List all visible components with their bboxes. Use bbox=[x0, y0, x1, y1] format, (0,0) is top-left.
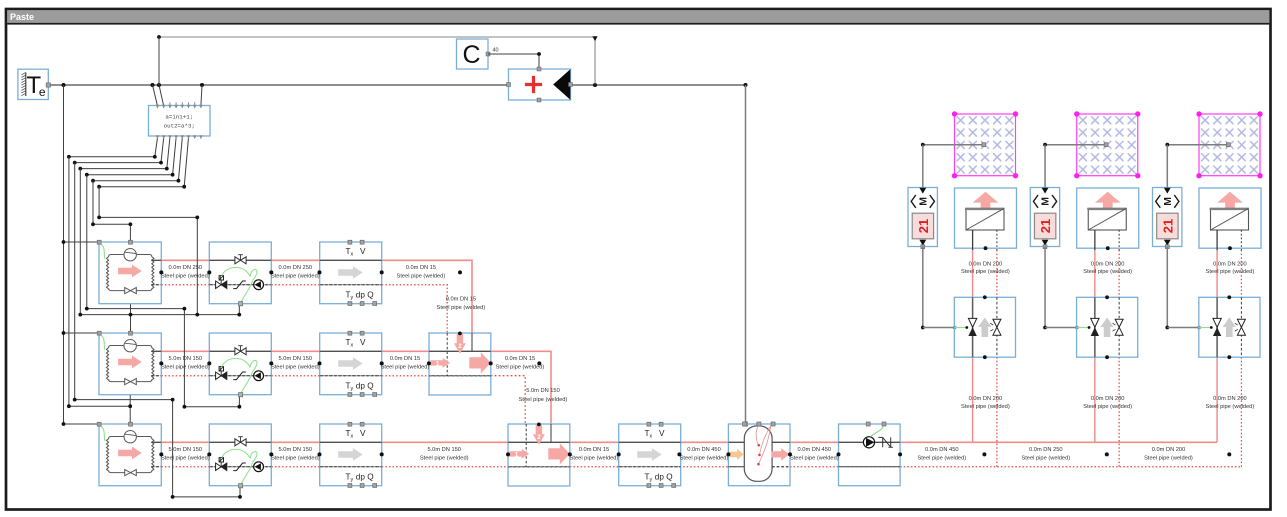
pipe P3.6 return (red dotted) bbox=[790, 466, 839, 468]
svg-text:5.0m DN 150: 5.0m DN 150 bbox=[427, 447, 461, 453]
pipe endpoint dots row1 bbox=[159, 270, 163, 274]
svg-text:5.0m DN 150: 5.0m DN 150 bbox=[279, 447, 313, 453]
feedback wire (top) bbox=[159, 37, 595, 85]
svg-text:a=in1+1;: a=in1+1; bbox=[165, 114, 193, 121]
bus column 6 (to row1 top pin) bbox=[92, 181, 94, 225]
svg-text:Steel pipe (welded): Steel pipe (welded) bbox=[570, 456, 619, 462]
heat pump block HP2 bbox=[97, 331, 161, 394]
stub to HP2 top-left bbox=[64, 332, 100, 334]
tee junction block T3 bbox=[508, 423, 570, 487]
pipe P3.1 return (red dotted) bbox=[161, 466, 209, 468]
svg-text:Steel pipe (welded): Steel pipe (welded) bbox=[161, 274, 210, 280]
wire: main wire to script pin8 bbox=[201, 85, 202, 106]
svg-text:Steel pipe (welded): Steel pipe (welded) bbox=[1021, 456, 1070, 462]
wire T2b: hp1-bottom to hp2-top chain bbox=[130, 304, 132, 333]
wire: script pin1 fan-out bbox=[69, 138, 158, 157]
svg-text:0.0m DN 250: 0.0m DN 250 bbox=[1029, 447, 1063, 453]
consumer branch 3 (hatched load, M-block 21, heat exchanger, valves) bbox=[1153, 111, 1263, 466]
svg-text:e: e bbox=[39, 85, 46, 99]
svg-text:5.0m DN 150: 5.0m DN 150 bbox=[526, 388, 560, 394]
bus column 5 (to row2 valve return) bbox=[86, 175, 88, 309]
svg-text:Steel pipe (welded): Steel pipe (welded) bbox=[271, 365, 320, 371]
pipe P2.1 supply (red) bbox=[161, 350, 209, 352]
main wire from Te sensor bbox=[48, 84, 508, 86]
svg-text:0.0m DN 250: 0.0m DN 250 bbox=[169, 265, 203, 271]
adder block (+) bbox=[507, 67, 573, 102]
pipe endpoint dots row2 bbox=[159, 361, 163, 365]
pipe P2.4 return (red dotted) tee2 to tee3 bbox=[491, 376, 526, 425]
svg-text:0.0m DN 450: 0.0m DN 450 bbox=[925, 447, 959, 453]
pipe P1.2 return (red dotted) bbox=[271, 284, 319, 286]
wire: script pin6 fan-out bbox=[99, 138, 188, 187]
wire T3a: row3 valve bottom feed bbox=[75, 400, 173, 497]
wire T2a: row2 valve-bottom feed bbox=[87, 309, 185, 407]
row3 return pipe base line bbox=[151, 466, 1242, 468]
svg-text:0.0m DN 15: 0.0m DN 15 bbox=[406, 265, 436, 271]
junction dots on main wire bbox=[62, 83, 66, 87]
svg-text:40: 40 bbox=[492, 48, 498, 54]
pipe P3.7 supply (red) long run to branches bbox=[900, 441, 1217, 443]
svg-text:Steel pipe (welded): Steel pipe (welded) bbox=[917, 456, 966, 462]
svg-text:0.0m DN 250: 0.0m DN 250 bbox=[279, 265, 313, 271]
svg-text:Steel pipe (welded): Steel pipe (welded) bbox=[437, 305, 486, 311]
ambient temperature sensor Te bbox=[18, 69, 51, 99]
svg-text:Steel pipe (welded): Steel pipe (welded) bbox=[1144, 456, 1193, 462]
valve/pump station V2 bbox=[209, 333, 271, 397]
arrowhead at feedback wire end bbox=[592, 36, 597, 41]
row3 supply pipe base line bbox=[151, 441, 1217, 443]
svg-text:Paste: Paste bbox=[10, 12, 34, 22]
wire T1b: row1 hp top pin link bbox=[93, 224, 130, 242]
row1 return pipe base line bbox=[151, 284, 448, 286]
pipe P3.3 return (red dotted) long bbox=[382, 466, 508, 468]
wire from main wire down to storage tank bbox=[745, 85, 747, 424]
pipe P2.4 supply (red) tee2 to tee3 bbox=[491, 351, 551, 424]
svg-text:5.0m DN 150: 5.0m DN 150 bbox=[169, 447, 203, 453]
pipe P3.2 return (red dotted) bbox=[271, 466, 319, 468]
pipe P1.2 supply (red) bbox=[271, 259, 319, 261]
pump block with grid symbol bbox=[839, 422, 901, 486]
svg-text:out2=a*3;: out2=a*3; bbox=[164, 123, 195, 130]
wire T3b: hp2-bottom to hp3-top chain bbox=[129, 395, 131, 424]
stub to HP1 top-left bbox=[64, 241, 100, 243]
storage tank block bbox=[728, 422, 790, 486]
svg-text:C: C bbox=[462, 41, 480, 69]
pipe P3.7 return (red dotted) run to right edge bbox=[900, 466, 1242, 468]
svg-text:0.0m DN 450: 0.0m DN 450 bbox=[687, 447, 721, 453]
pipe P3.2 supply (red) bbox=[271, 441, 319, 443]
svg-text:0.0m DN 15: 0.0m DN 15 bbox=[505, 356, 535, 362]
wire: script pin5 fan-out bbox=[93, 138, 182, 181]
pipe P3.1 supply (red) bbox=[161, 441, 209, 443]
heat pump block HP3 bbox=[97, 422, 161, 485]
pipe P3.4 supply (red) bbox=[570, 441, 619, 443]
svg-text:Steel pipe (welded): Steel pipe (welded) bbox=[420, 456, 469, 462]
wire: script pin3 fan-out bbox=[80, 138, 170, 169]
valve/pump station V3 bbox=[209, 424, 271, 488]
pipe P2.2 return (red dotted) bbox=[271, 375, 319, 377]
wire C to adder bbox=[488, 54, 539, 69]
valve/pump station V1 bbox=[209, 242, 271, 306]
svg-text:Steel pipe (welded): Steel pipe (welded) bbox=[381, 365, 430, 371]
title bar bbox=[7, 10, 1269, 23]
constant block C bbox=[457, 39, 490, 69]
row1 supply pipe base line bbox=[151, 259, 472, 261]
pipe P1.3 supply (red) with corner down bbox=[382, 260, 472, 333]
pipe P1.3 return (red dotted) with corner down bbox=[382, 284, 448, 286]
pipe P2.3 supply (red) bbox=[382, 350, 429, 352]
consumer branch 2 (hatched load, M-block 21, heat exchanger, valves) bbox=[1030, 111, 1140, 466]
pipe P2.2 supply (red) bbox=[271, 350, 319, 352]
sensor block S2 (Tx V / Ty dp Q) bbox=[320, 331, 382, 396]
svg-text:Steel pipe (welded): Steel pipe (welded) bbox=[161, 456, 210, 462]
svg-text:Steel pipe (welded): Steel pipe (welded) bbox=[161, 365, 210, 371]
wire: script pin4 fan-out bbox=[87, 138, 176, 175]
wire T2c: row2 valve bottom link bbox=[184, 406, 239, 408]
svg-text:Steel pipe (welded): Steel pipe (welded) bbox=[271, 274, 320, 280]
svg-text:Steel pipe (welded): Steel pipe (welded) bbox=[519, 397, 568, 403]
svg-text:0.0m DN 15: 0.0m DN 15 bbox=[579, 447, 609, 453]
pipe P3.5 return (red dotted) bbox=[679, 466, 728, 468]
svg-text:Steel pipe (welded): Steel pipe (welded) bbox=[680, 456, 729, 462]
pipe P2.3 return (red dotted) bbox=[382, 375, 429, 377]
svg-text:0.0m DN 450: 0.0m DN 450 bbox=[798, 447, 832, 453]
svg-text:Steel pipe (welded): Steel pipe (welded) bbox=[790, 456, 839, 462]
pipe P2.1 return (red dotted) bbox=[161, 375, 209, 377]
svg-text:Steel pipe (welded): Steel pipe (welded) bbox=[271, 456, 320, 462]
pipe P1.1 supply (red) bbox=[161, 259, 209, 261]
sensor block S3 (Tx V / Ty dp Q) bbox=[320, 422, 382, 487]
row2 supply pipe base line bbox=[151, 350, 491, 352]
wire: row3 valve bottom link bbox=[173, 486, 240, 497]
bus column 2 (to row3 top pin) bbox=[68, 157, 70, 406]
pipe P3.4 return (red dotted) bbox=[570, 466, 619, 468]
row2 return pipe base line bbox=[151, 375, 491, 377]
left bus column (Te signal) bbox=[63, 85, 65, 424]
wire: script pin2 fan-out bbox=[75, 138, 164, 163]
bus column 3 (to row3 valve return) bbox=[74, 163, 76, 400]
sensor block S4 (Tx V / Ty dp Q) bbox=[619, 422, 681, 487]
wire: vertical into script block pin2 bbox=[159, 37, 164, 106]
pipe P3.3 supply (red) long bbox=[382, 441, 508, 443]
heat pump block HP1 bbox=[97, 240, 161, 303]
svg-text:0.0m DN 15: 0.0m DN 15 bbox=[446, 296, 476, 302]
svg-text:5.0m DN 150: 5.0m DN 150 bbox=[169, 356, 203, 362]
svg-text:5.0m DN 150: 5.0m DN 150 bbox=[279, 356, 313, 362]
tee junction block T2 bbox=[429, 332, 491, 396]
pipe P3.6 supply (red) bbox=[790, 441, 839, 443]
wire: main wire to script pin1 bbox=[153, 85, 158, 106]
wire T1a: row1 valve-bottom link bbox=[99, 217, 197, 314]
svg-text:Steel pipe (welded): Steel pipe (welded) bbox=[496, 365, 545, 371]
consumer branch 1 (hatched load, M-block 21, heat exchanger, valves) bbox=[908, 111, 1018, 466]
pipe endpoint dots row3 bbox=[159, 452, 163, 456]
script block (a=in1+1; out2=a*3;) bbox=[149, 102, 211, 139]
pipe P1.1 return (red dotted) bbox=[161, 284, 209, 286]
pipe P3.5 supply (red) bbox=[679, 441, 728, 443]
stub to HP3 top-left bbox=[64, 423, 100, 425]
svg-text:Steel pipe (welded): Steel pipe (welded) bbox=[397, 274, 446, 280]
svg-text:0.0m DN 200: 0.0m DN 200 bbox=[1152, 447, 1186, 453]
bus column 7 (to row1 valve return) bbox=[98, 187, 100, 218]
bus column 4 (to row2 top pin) bbox=[79, 169, 81, 315]
sensor block S1 (Tx V / Ty dp Q) bbox=[320, 240, 382, 305]
svg-text:0.0m DN 15: 0.0m DN 15 bbox=[390, 356, 420, 362]
